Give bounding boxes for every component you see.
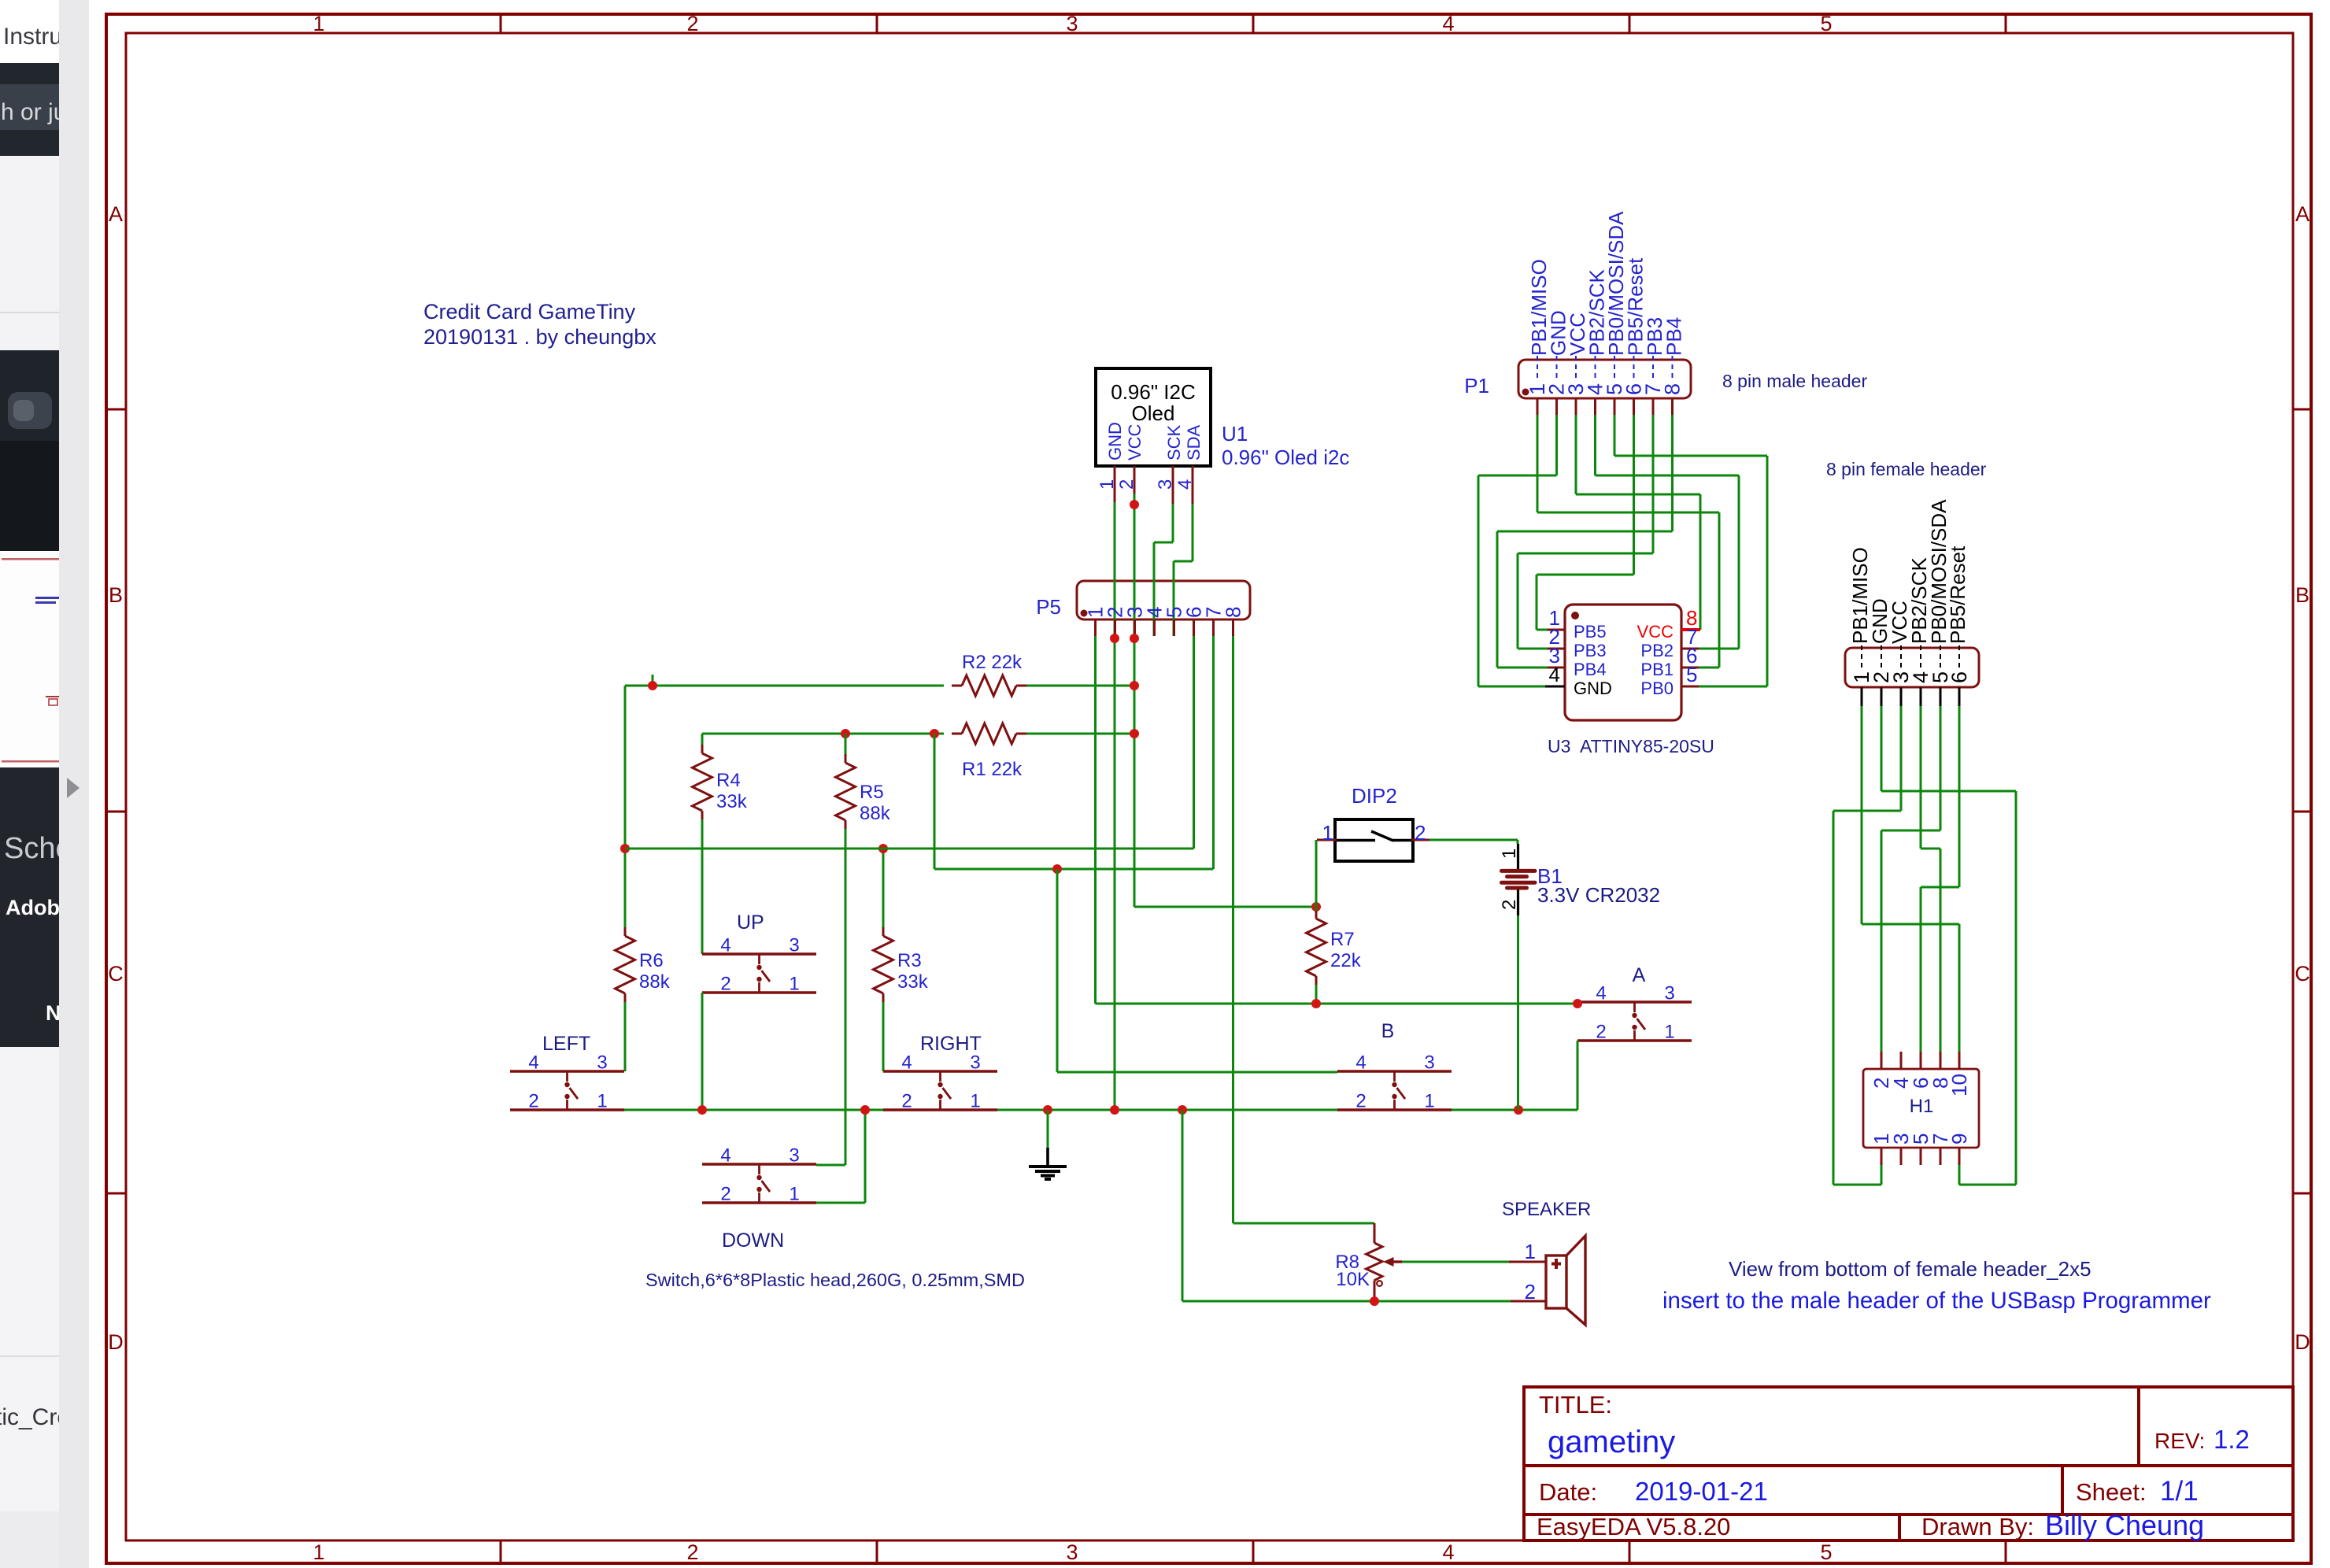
svg-text:PB0: PB0 [1640, 679, 1674, 698]
wire VCC y1152 to R7/DIP2 [1134, 906, 1316, 908]
svg-text:3: 3 [1066, 1540, 1078, 1564]
svg-text:22k: 22k [1330, 950, 1362, 971]
svg-text:2: 2 [1415, 821, 1426, 845]
svg-text:R6: R6 [639, 950, 664, 971]
svg-text:33k: 33k [897, 971, 929, 993]
wire bus drop x1502 to speaker row [1182, 1110, 1184, 1301]
svg-text:SDA: SDA [1184, 424, 1204, 460]
junction R2/VCC [1130, 681, 1139, 690]
svg-text:A: A [109, 202, 123, 226]
switch RIGHT actuator [939, 1071, 941, 1082]
svg-text:1: 1 [313, 12, 324, 35]
svg-text:5: 5 [1686, 663, 1697, 686]
left browser strip background [0, 0, 59, 1568]
DIP2 switch box [1335, 819, 1413, 861]
svg-text:Date:: Date: [1539, 1478, 1597, 1506]
svg-text:insert to the male header of t: insert to the male header of the USBasp … [1662, 1288, 2211, 1314]
svg-text:C: C [108, 962, 124, 986]
wire P5 pin8 row to R8 top [1233, 1222, 1375, 1225]
oled display U1 box [1096, 368, 1211, 466]
switch LEFT actuator [566, 1071, 568, 1082]
potentiometer R8 [1374, 1223, 1376, 1243]
wire P1 pin8 PB4 [1671, 415, 1674, 531]
svg-text:LEFT: LEFT [542, 1033, 590, 1055]
connector P5 box [1077, 581, 1250, 619]
svg-text:3: 3 [1066, 12, 1078, 35]
junction P5 pin2 and pin3 [1110, 634, 1119, 643]
svg-text:1: 1 [313, 1540, 324, 1564]
svg-text:8: 8 [1222, 607, 1245, 618]
resistor R3 [882, 849, 885, 927]
wire P1 pin5 MOSI [1614, 415, 1616, 456]
row ticks left/right [106, 409, 126, 411]
switch UP bar pins 2-1 [702, 991, 816, 993]
wire oled pin2 VCC down [1134, 494, 1136, 907]
svg-text:R5: R5 [860, 782, 884, 803]
junction R3 top [878, 844, 888, 853]
svg-text:VCC: VCC [1125, 423, 1145, 460]
U1 pin stubs [1114, 466, 1116, 502]
junction R7 top [1311, 902, 1321, 912]
junction y1104 x1343 [1052, 864, 1062, 874]
wire x1187 R1 branch down [934, 734, 936, 869]
svg-text:2: 2 [720, 1184, 730, 1205]
svg-text:2: 2 [720, 974, 730, 995]
wire ground bus [624, 1109, 883, 1111]
svg-text:H1: H1 [1910, 1096, 1934, 1117]
wire rail y932 left part [702, 733, 944, 735]
svg-text:33k: 33k [716, 791, 748, 812]
svg-text:P1: P1 [1464, 374, 1489, 398]
svg-text:1: 1 [597, 1091, 607, 1112]
wire F1 to H1 pin10 [1861, 706, 1863, 924]
wire horizontal y1104 [934, 868, 1214, 871]
svg-text:Drawn By:: Drawn By: [1921, 1513, 2034, 1540]
wire battery negative down to bus [1517, 915, 1519, 1110]
wire oled pin3 SCK jog to P5 pin4 [1172, 504, 1174, 542]
H1 bottom stubs [1881, 1148, 1883, 1165]
wire DOWN pin3 link [816, 1164, 845, 1167]
svg-text:DOWN: DOWN [722, 1230, 784, 1252]
stub at junction x829 [652, 675, 654, 686]
svg-text:4: 4 [1549, 663, 1560, 686]
switch LEFT bar pins 4-3 [510, 1070, 624, 1072]
svg-text:R4: R4 [716, 770, 741, 791]
svg-text:4: 4 [1442, 12, 1454, 35]
svg-text:SCK: SCK [1164, 424, 1184, 460]
svg-text:3.3V CR2032: 3.3V CR2032 [1537, 883, 1660, 907]
svg-text:Credit Card GameTiny: Credit Card GameTiny [423, 300, 636, 324]
svg-text:B: B [109, 583, 123, 607]
connector P1 box [1518, 360, 1691, 398]
svg-text:EasyEDA V5.8.20: EasyEDA V5.8.20 [1537, 1513, 1730, 1540]
battery B1 [1517, 844, 1519, 869]
svg-text:2: 2 [686, 12, 698, 35]
svg-text:R3: R3 [897, 950, 922, 971]
svg-text:R7: R7 [1330, 929, 1355, 950]
svg-text:Switch,6*6*8Plastic head,260G,: Switch,6*6*8Plastic head,260G, 0.25mm,SM… [645, 1270, 1025, 1290]
U3 left pins [1548, 629, 1565, 631]
switch B actuator [1393, 1071, 1396, 1082]
wire F5 to H1 pin2 [1940, 706, 1942, 830]
wire P5 pin8 down to speaker row [1232, 636, 1234, 1223]
svg-text:20190131 . by cheungbx: 20190131 . by cheungbx [423, 325, 656, 349]
DIP2 contacts [1317, 839, 1337, 841]
wire to ground [1047, 1110, 1049, 1148]
wire F3 to H1 pin1 [1900, 706, 1903, 811]
svg-text:1: 1 [789, 1184, 799, 1205]
svg-text:1: 1 [1424, 1091, 1434, 1112]
svg-text:2: 2 [1525, 1280, 1536, 1304]
wire P1 pin1 MISO [1537, 415, 1539, 512]
wire DIP2 pin1 drop [1315, 840, 1318, 907]
svg-text:R2 22k: R2 22k [962, 652, 1023, 673]
svg-text:1.2: 1.2 [2213, 1425, 2250, 1454]
wire VCC rail y871 left part [625, 685, 944, 687]
svg-text:1: 1 [1499, 849, 1520, 859]
wire F6 to H1 pin6 [1958, 706, 1961, 887]
svg-text:A: A [2295, 202, 2310, 226]
wire x794 from y871 to R6 [624, 686, 627, 927]
svg-text:PB5/Reset: PB5/Reset [1946, 545, 1969, 644]
svg-text:REV:: REV: [2154, 1429, 2205, 1453]
resistor R4 [701, 734, 704, 745]
svg-text:A: A [1633, 964, 1646, 986]
switch DOWN actuator [758, 1164, 760, 1174]
junctions on bus [697, 1105, 707, 1115]
switch A bar pins 4-3 [1577, 1000, 1692, 1003]
svg-text:B: B [2295, 583, 2310, 607]
R8 wiper arrow [1392, 1260, 1402, 1263]
svg-text:DIP2: DIP2 [1352, 784, 1397, 808]
female header stubs [1861, 687, 1863, 706]
P5 pin1 marker [1081, 610, 1088, 617]
connector female header box [1845, 648, 1979, 687]
svg-text:2: 2 [1116, 479, 1137, 490]
wire P5 pin1 down then right along y1275 [1094, 636, 1097, 1004]
svg-text:8 pin female header: 8 pin female header [1826, 459, 1987, 479]
svg-text:4: 4 [1596, 983, 1606, 1004]
svg-text:ATTINY85-20SU: ATTINY85-20SU [1580, 736, 1714, 756]
svg-text:1: 1 [970, 1091, 980, 1112]
svg-text:0.96" I2C: 0.96" I2C [1111, 380, 1196, 404]
wire P1 pin3 VCC [1575, 415, 1577, 494]
svg-text:UP: UP [737, 912, 764, 934]
svg-text:1/1: 1/1 [2160, 1476, 2199, 1507]
svg-text:0.96" Oled i2c: 0.96" Oled i2c [1222, 446, 1349, 469]
svg-text:5: 5 [1820, 1540, 1832, 1564]
svg-text:2: 2 [686, 1540, 698, 1564]
svg-text:PB2: PB2 [1640, 641, 1674, 660]
svg-text:3: 3 [1664, 983, 1674, 1004]
wire R4 bottom to UP pin4 [701, 819, 704, 954]
svg-text:Sheet:: Sheet: [2076, 1478, 2147, 1506]
svg-text:2: 2 [1355, 1091, 1366, 1112]
wire oled pin1 GND down to bus [1114, 502, 1116, 1110]
P1 pin stubs [1537, 398, 1539, 415]
svg-text:1: 1 [789, 974, 799, 995]
H1 pin1/pin9 tails [1881, 1165, 1883, 1185]
svg-text:D: D [108, 1330, 124, 1354]
svg-text:1: 1 [1322, 821, 1333, 845]
svg-text:h or ju: h or ju [1, 99, 66, 125]
wire R1 right to VCC vertical [1026, 733, 1134, 735]
svg-text:TITLE:: TITLE: [1539, 1391, 1612, 1418]
svg-text:2: 2 [1596, 1022, 1606, 1043]
title block frame [1524, 1387, 2293, 1540]
svg-text:4: 4 [1355, 1052, 1366, 1074]
junction oled pin2 [1130, 500, 1139, 509]
wire UP pin2 down to bus [701, 993, 704, 1110]
svg-text:88k: 88k [639, 971, 671, 993]
svg-text:PB4: PB4 [1662, 317, 1686, 356]
switch RIGHT bar pins 4-3 [883, 1070, 997, 1072]
wire DOWN pin1 to bus [816, 1202, 865, 1204]
junction y1078 x794 [620, 844, 630, 853]
resistor R7 [1315, 910, 1318, 919]
wire R3 bottom to RIGHT pin4 [882, 1002, 885, 1071]
svg-text:1: 1 [1097, 479, 1118, 490]
svg-text:8: 8 [1661, 383, 1685, 395]
svg-text:2: 2 [528, 1091, 538, 1112]
wire R6 bottom to LEFT pin3 [624, 1002, 627, 1071]
svg-text:Billy Cheung: Billy Cheung [2045, 1509, 2204, 1541]
svg-text:PB5: PB5 [1574, 622, 1607, 642]
svg-text:U3: U3 [1548, 736, 1570, 756]
junction R8 bottom [1370, 1296, 1379, 1306]
switch UP bar pins 4-3 [702, 952, 816, 955]
svg-text:4: 4 [720, 1145, 730, 1167]
svg-text:VCC: VCC [1637, 622, 1674, 642]
svg-text:3: 3 [970, 1052, 980, 1074]
switch LEFT bar pins 2-1 [510, 1108, 624, 1111]
wire y1362 to B switch pin4 [1057, 1071, 1337, 1074]
svg-text:B: B [1381, 1020, 1395, 1042]
switch B bar pins 2-1 [1337, 1108, 1452, 1111]
wire R5 bottom down to DOWN pin3 link [845, 829, 847, 1165]
svg-text:2: 2 [1499, 900, 1520, 910]
svg-text:C: C [2295, 962, 2310, 986]
resistor R1 [952, 733, 962, 735]
H1 top stubs [1881, 1052, 1883, 1069]
svg-text:2: 2 [901, 1091, 912, 1112]
svg-text:D: D [2295, 1330, 2310, 1354]
svg-text:View from bottom of female hea: View from bottom of female header_2x5 [1729, 1257, 2091, 1281]
svg-text:U1: U1 [1222, 422, 1248, 446]
speaker symbol [1546, 1256, 1566, 1308]
svg-text:8 pin male header: 8 pin male header [1722, 371, 1867, 391]
wire horizontal y1078 [625, 848, 1194, 850]
svg-text:Adob: Adob [6, 896, 60, 919]
wire P5 pin7 down to y1104 [1212, 636, 1215, 869]
svg-text:3: 3 [597, 1052, 607, 1074]
svg-text:gametiny: gametiny [1548, 1425, 1675, 1459]
wire x1343 down to B switch row [1056, 869, 1059, 1072]
svg-text:4: 4 [528, 1052, 538, 1074]
svg-text:4: 4 [720, 935, 730, 956]
svg-text:10: 10 [1947, 1074, 1971, 1096]
switch DOWN bar pins 2-1 [702, 1201, 816, 1204]
gutter [59, 0, 89, 1568]
junction R7 bottom [1311, 999, 1321, 1008]
wire F2 to H1 pin9 [1881, 706, 1883, 791]
wire DIP2 pin2 to battery [1429, 839, 1518, 841]
svg-text:PB1: PB1 [1640, 660, 1674, 679]
svg-text:GND: GND [1574, 679, 1612, 698]
resistor R6 [624, 927, 627, 936]
switch B bar pins 4-3 [1337, 1070, 1452, 1072]
svg-text:4: 4 [1442, 1540, 1454, 1564]
svg-text:88k: 88k [860, 803, 891, 824]
svg-text:6: 6 [1947, 671, 1971, 683]
switch A bar pins 2-1 [1577, 1039, 1692, 1041]
svg-text:5: 5 [1820, 12, 1832, 35]
U3 right pins [1681, 628, 1700, 631]
svg-text:PB3: PB3 [1574, 641, 1607, 660]
wire P1 pin2 GND [1555, 415, 1558, 475]
svg-text:GND: GND [1105, 422, 1125, 460]
junctions on y932 [1130, 729, 1139, 738]
svg-text:3: 3 [1424, 1052, 1434, 1074]
wire R2 right to VCC vertical [1026, 685, 1134, 687]
svg-text:10K: 10K [1336, 1269, 1370, 1290]
junction A pin4 [1573, 999, 1582, 1008]
svg-text:SPEAKER: SPEAKER [1502, 1199, 1591, 1220]
svg-text:Oled: Oled [1132, 401, 1175, 425]
svg-text:N: N [46, 1001, 61, 1025]
speaker pin stubs [1509, 1261, 1546, 1263]
P5 pin stubs below [1094, 619, 1097, 636]
svg-text:R1 22k: R1 22k [962, 759, 1023, 780]
svg-text:4: 4 [901, 1052, 912, 1074]
switch UP actuator [758, 954, 760, 964]
svg-text:RIGHT: RIGHT [920, 1033, 982, 1055]
resistor R2 [952, 685, 962, 687]
wire P1 pin4 SCK [1594, 415, 1596, 475]
wire F4 to H1 pin8 [1920, 706, 1922, 849]
svg-text:3: 3 [1155, 479, 1176, 490]
wire P1 pin7 PB3 [1652, 415, 1655, 553]
ground [1046, 1148, 1049, 1166]
wire oled pin4 SDA jog to P5 pin5 [1192, 504, 1194, 561]
switch DOWN bar pins 4-3 [702, 1163, 816, 1165]
svg-text:4: 4 [1174, 479, 1196, 490]
svg-text:PB4: PB4 [1574, 660, 1607, 679]
wire A pin2 drop [1577, 1041, 1579, 1110]
switch A actuator [1633, 1002, 1636, 1012]
svg-text:2019-01-21: 2019-01-21 [1635, 1477, 1768, 1506]
wire P5 pin6 down to y1078 [1193, 636, 1195, 849]
wire P1 pin6 Reset [1633, 415, 1635, 575]
column ticks top/bottom [500, 14, 502, 33]
svg-text:1: 1 [1664, 1022, 1674, 1043]
svg-text:3: 3 [789, 935, 799, 956]
connector H1 box [1863, 1069, 1979, 1148]
resistor R5 [845, 734, 847, 754]
switch RIGHT bar pins 2-1 [883, 1108, 997, 1111]
svg-text:9: 9 [1947, 1133, 1971, 1145]
svg-text:3: 3 [789, 1145, 799, 1167]
wire wiper to speaker pin1 [1402, 1261, 1509, 1263]
ic U3 ATTINY85 box [1565, 605, 1681, 720]
svg-text:1: 1 [1525, 1240, 1536, 1263]
svg-text:P5: P5 [1036, 595, 1061, 619]
